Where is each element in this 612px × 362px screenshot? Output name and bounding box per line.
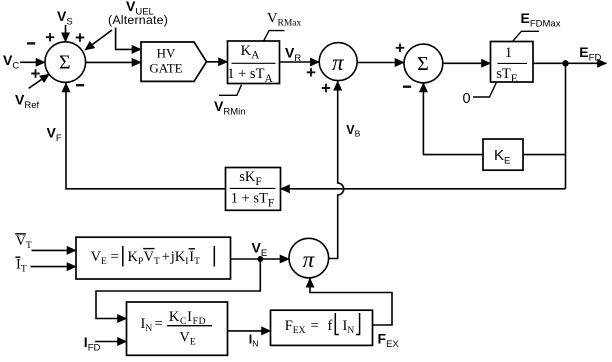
gate U1 HV GATE bbox=[141, 42, 207, 81]
sign plus VRef bbox=[31, 69, 39, 77]
wire EFD output arrow bbox=[533, 62, 607, 64]
node VT-bar label bbox=[15, 233, 32, 251]
sign plus VR input bbox=[307, 68, 315, 76]
sign minus SUM2 bbox=[403, 86, 411, 88]
svg-text:GATE: GATE bbox=[149, 61, 182, 76]
block VE equation bbox=[76, 237, 231, 279]
svg-text:1 + sTF: 1 + sTF bbox=[231, 191, 275, 210]
sign plus SUM2 bbox=[396, 44, 404, 52]
svg-text:=: = bbox=[311, 318, 319, 334]
wire tap to KE block bbox=[523, 154, 566, 156]
wire IN to FEX block bbox=[228, 330, 271, 332]
node VE junction dot bbox=[257, 256, 263, 262]
wire VUEL drop to HV gate bbox=[116, 28, 141, 50]
wire KE to SUM2 bottom bbox=[423, 83, 483, 155]
svg-text:Σ: Σ bbox=[59, 51, 71, 73]
wire KA to PI1 bbox=[280, 61, 320, 63]
wire SUM2 to TE block bbox=[443, 62, 491, 64]
wire VE to PI2 bbox=[231, 258, 290, 260]
wire VB vertical with hop over feedback bbox=[329, 81, 344, 258]
limiter mark VRMax bbox=[264, 31, 285, 42]
svg-text:f: f bbox=[328, 318, 333, 334]
sign plus VS-left bbox=[46, 33, 54, 41]
svg-text:Σ: Σ bbox=[417, 53, 429, 75]
wire VUEL diagonal arrow to SUM1 bbox=[85, 30, 112, 50]
wire VS input arrow bbox=[65, 25, 67, 42]
svg-text:=: = bbox=[155, 316, 163, 332]
svg-text:0: 0 bbox=[463, 91, 471, 107]
block 1/sTE bbox=[491, 42, 534, 85]
wire VRef input arrow bbox=[29, 74, 50, 88]
svg-text:=: = bbox=[111, 249, 119, 265]
block KE bbox=[483, 139, 523, 170]
wire IT input arrow bbox=[31, 266, 77, 268]
svg-text:(Alternate): (Alternate) bbox=[108, 13, 168, 27]
wire IFD input arrow bbox=[95, 341, 127, 343]
svg-text:HV: HV bbox=[157, 45, 176, 60]
wire EFD feedback drop bbox=[565, 63, 567, 189]
limiter mark VRMin bbox=[219, 85, 242, 96]
wire SUM1 to HV gate bbox=[86, 61, 141, 63]
svg-text:+: + bbox=[162, 249, 170, 265]
node IT-bar label bbox=[15, 257, 26, 275]
summing junction SUM1 bbox=[45, 42, 86, 83]
wire HV gate to KA block bbox=[207, 61, 228, 63]
sign minus VF bbox=[76, 84, 84, 86]
sign plus VB input bbox=[322, 84, 330, 92]
sign minus VC bbox=[27, 42, 35, 44]
block KA/(1+sTA) bbox=[227, 41, 279, 85]
wire sKF to SUM1 bottom (VF) bbox=[66, 83, 226, 189]
svg-text:π: π bbox=[332, 50, 345, 75]
svg-text:1: 1 bbox=[505, 45, 512, 61]
block FEX equation bbox=[271, 310, 373, 345]
wire FEX feedback to PI2 bottom bbox=[310, 278, 392, 325]
svg-text:π: π bbox=[303, 247, 316, 272]
limiter mark EFDMax bbox=[513, 31, 539, 41]
wire PI1 to SUM2 bbox=[357, 62, 404, 64]
limiter mark zero bbox=[473, 82, 497, 97]
sign plus VS-right bbox=[76, 33, 84, 41]
summing junction SUM2 bbox=[404, 44, 443, 83]
wire VT input arrow bbox=[32, 249, 77, 251]
wire VC input arrow bbox=[20, 61, 45, 63]
node EFD junction dot bbox=[562, 60, 568, 66]
wire EFD feedback to sKF block bbox=[281, 188, 566, 190]
wire VE down to IN block bbox=[96, 259, 260, 319]
block sKF/(1+sTF) bbox=[226, 168, 281, 211]
multiplier PI1 bbox=[319, 43, 357, 81]
block IN equation bbox=[127, 302, 228, 355]
multiplier PI2 bbox=[289, 238, 329, 278]
